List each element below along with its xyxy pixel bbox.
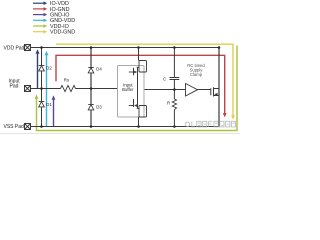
svg-text:D2: D2: [46, 66, 52, 71]
svg-text:D1: D1: [46, 102, 52, 107]
svg-text:Buffer: Buffer: [122, 87, 134, 92]
svg-text:Pad: Pad: [10, 83, 19, 89]
svg-text:D4: D4: [96, 67, 102, 72]
svg-text:Clamp: Clamp: [190, 72, 203, 77]
svg-text:R: R: [167, 100, 170, 105]
svg-text:D3: D3: [96, 105, 102, 110]
svg-text:VSS Pad: VSS Pad: [4, 124, 25, 130]
svg-text:VDD Pad: VDD Pad: [4, 46, 25, 52]
svg-text:VDD-GND: VDD-GND: [50, 30, 75, 36]
svg-text:C: C: [163, 76, 166, 81]
svg-text:Rs: Rs: [64, 78, 69, 83]
